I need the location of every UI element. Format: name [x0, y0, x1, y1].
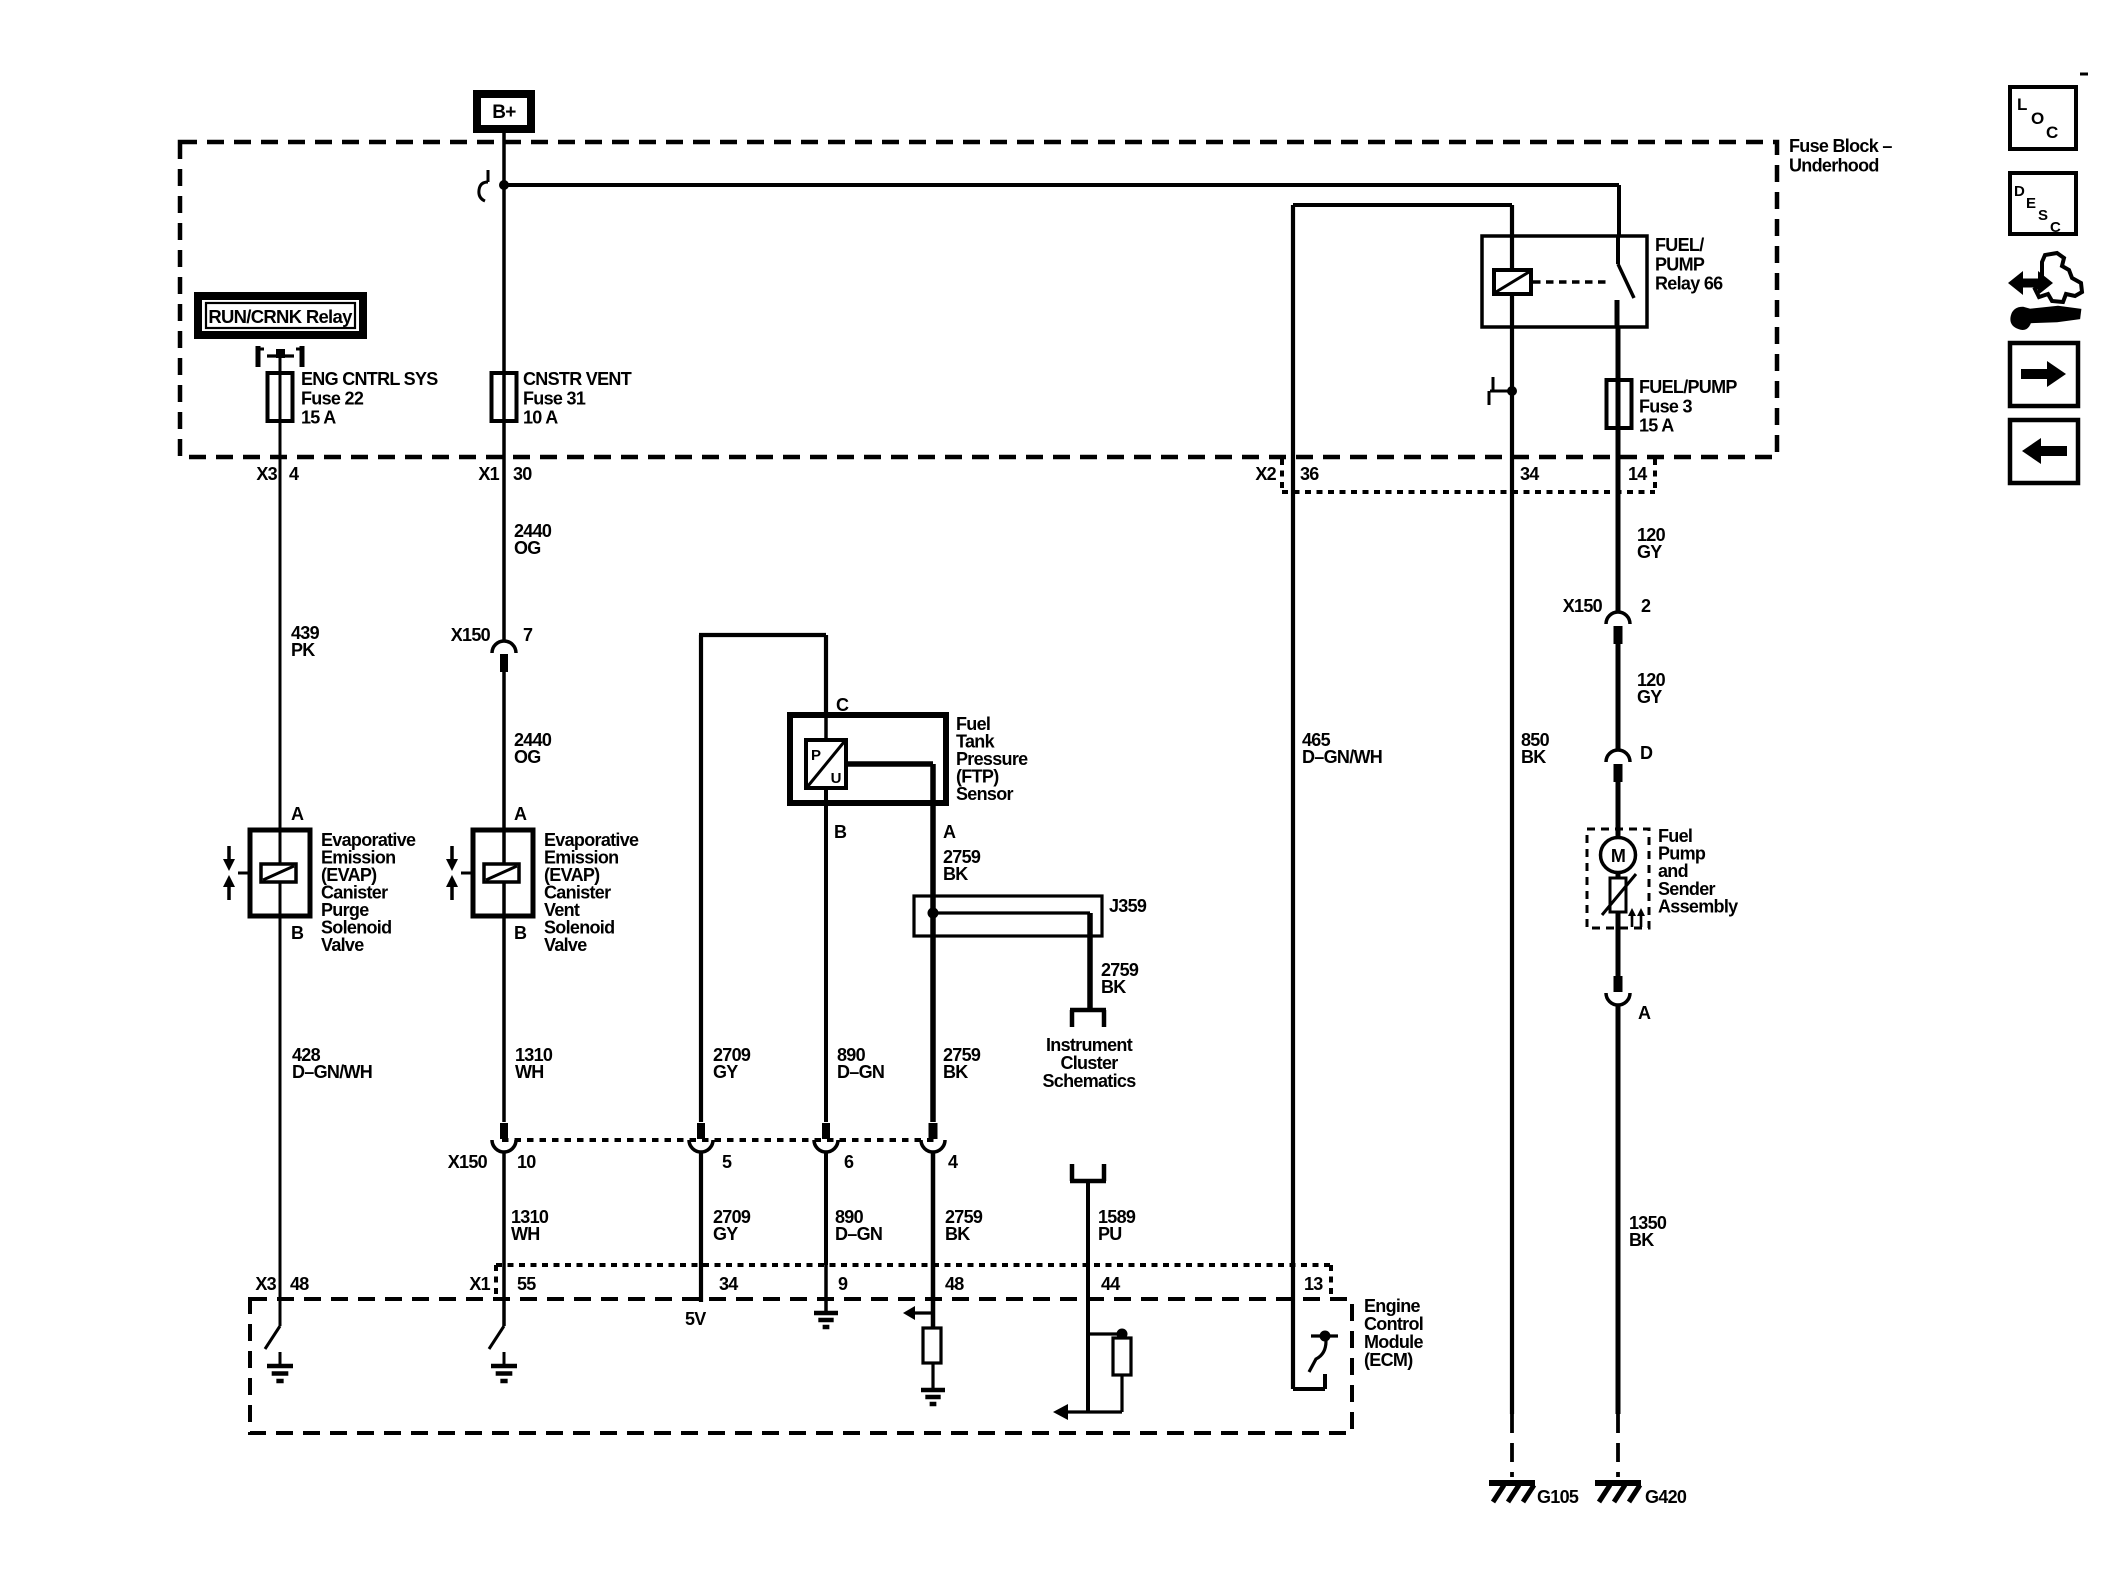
- svg-text:48: 48: [945, 1274, 964, 1294]
- svg-text:Fuse 3: Fuse 3: [1639, 396, 1693, 416]
- svg-text:Cluster: Cluster: [1060, 1053, 1118, 1073]
- svg-text:BK: BK: [945, 1224, 970, 1244]
- svg-text:X2: X2: [1255, 464, 1276, 484]
- svg-text:44: 44: [1101, 1274, 1120, 1294]
- svg-text:X1: X1: [478, 464, 499, 484]
- svg-text:A: A: [291, 804, 304, 824]
- svg-text:GY: GY: [1637, 687, 1662, 707]
- svg-text:O: O: [2031, 109, 2044, 128]
- svg-text:Fuse Block –: Fuse Block –: [1789, 136, 1892, 156]
- svg-text:15 A: 15 A: [1639, 416, 1674, 436]
- svg-text:S: S: [2038, 207, 2048, 224]
- svg-text:FUEL/: FUEL/: [1655, 235, 1704, 255]
- svg-text:13: 13: [1304, 1274, 1323, 1294]
- svg-text:G420: G420: [1645, 1487, 1687, 1507]
- svg-text:GY: GY: [713, 1224, 738, 1244]
- svg-text:A: A: [514, 804, 527, 824]
- svg-text:Sensor: Sensor: [956, 784, 1014, 804]
- svg-text:C: C: [2050, 219, 2061, 236]
- svg-text:X3: X3: [256, 464, 277, 484]
- svg-text:5V: 5V: [685, 1309, 706, 1329]
- svg-text:34: 34: [719, 1274, 738, 1294]
- svg-text:C: C: [836, 695, 849, 715]
- svg-text:6: 6: [844, 1152, 854, 1172]
- svg-text:GY: GY: [713, 1062, 738, 1082]
- svg-text:Control: Control: [1364, 1314, 1423, 1334]
- svg-text:36: 36: [1300, 464, 1319, 484]
- svg-text:D–GN/WH: D–GN/WH: [1302, 747, 1382, 767]
- svg-text:Valve: Valve: [544, 935, 587, 955]
- svg-text:X150: X150: [448, 1152, 488, 1172]
- svg-text:WH: WH: [515, 1062, 544, 1082]
- svg-text:Underhood: Underhood: [1789, 155, 1879, 175]
- svg-text:B: B: [291, 923, 304, 943]
- svg-text:BK: BK: [1101, 977, 1126, 997]
- svg-text:Valve: Valve: [321, 935, 364, 955]
- svg-text:48: 48: [290, 1274, 309, 1294]
- svg-text:Instrument: Instrument: [1046, 1035, 1133, 1055]
- svg-text:J359: J359: [1109, 896, 1147, 916]
- svg-text:Schematics: Schematics: [1042, 1071, 1136, 1091]
- svg-text:WH: WH: [511, 1224, 540, 1244]
- svg-text:(ECM): (ECM): [1364, 1350, 1413, 1370]
- svg-text:ENG CNTRL SYS: ENG CNTRL SYS: [301, 369, 438, 389]
- svg-text:M: M: [1611, 846, 1625, 866]
- svg-text:BK: BK: [1629, 1230, 1654, 1250]
- svg-text:B: B: [834, 822, 847, 842]
- svg-text:E: E: [2026, 195, 2036, 212]
- svg-text:7: 7: [523, 625, 533, 645]
- svg-text:2: 2: [1641, 596, 1651, 616]
- svg-text:4: 4: [948, 1152, 958, 1172]
- svg-text:10 A: 10 A: [523, 408, 558, 428]
- svg-text:D–GN: D–GN: [837, 1062, 884, 1082]
- svg-text:P: P: [811, 747, 821, 764]
- svg-text:BK: BK: [943, 864, 968, 884]
- svg-text:U: U: [831, 770, 842, 787]
- svg-text:RUN/CRNK Relay: RUN/CRNK Relay: [208, 306, 353, 327]
- svg-text:PK: PK: [291, 640, 315, 660]
- svg-text:A: A: [1638, 1003, 1651, 1023]
- svg-text:55: 55: [517, 1274, 536, 1294]
- svg-text:Assembly: Assembly: [1658, 896, 1738, 916]
- svg-text:OG: OG: [514, 747, 541, 767]
- svg-text:A: A: [943, 822, 956, 842]
- svg-text:D: D: [1640, 743, 1653, 763]
- svg-text:OG: OG: [514, 538, 541, 558]
- svg-text:9: 9: [838, 1274, 848, 1294]
- svg-text:X3: X3: [255, 1274, 276, 1294]
- svg-text:PU: PU: [1098, 1224, 1122, 1244]
- svg-text:BK: BK: [1521, 747, 1546, 767]
- svg-text:4: 4: [289, 464, 299, 484]
- svg-text:D–GN: D–GN: [835, 1224, 882, 1244]
- svg-text:30: 30: [513, 464, 532, 484]
- svg-text:34: 34: [1520, 464, 1539, 484]
- svg-text:Fuse 31: Fuse 31: [523, 388, 586, 408]
- svg-text:PUMP: PUMP: [1655, 254, 1705, 274]
- svg-text:FUEL/PUMP: FUEL/PUMP: [1639, 377, 1737, 397]
- svg-text:14: 14: [1628, 464, 1647, 484]
- svg-text:B: B: [514, 923, 527, 943]
- svg-text:GY: GY: [1637, 542, 1662, 562]
- svg-text:Fuse 22: Fuse 22: [301, 388, 364, 408]
- svg-text:C: C: [2046, 123, 2058, 142]
- svg-text:X1: X1: [469, 1274, 490, 1294]
- svg-text:X150: X150: [451, 625, 491, 645]
- svg-text:5: 5: [722, 1152, 732, 1172]
- svg-text:X150: X150: [1563, 596, 1603, 616]
- svg-text:10: 10: [517, 1152, 536, 1172]
- svg-text:Relay 66: Relay 66: [1655, 274, 1723, 294]
- svg-text:15 A: 15 A: [301, 408, 336, 428]
- svg-text:BK: BK: [943, 1062, 968, 1082]
- svg-text:CNSTR VENT: CNSTR VENT: [523, 369, 632, 389]
- svg-text:Module: Module: [1364, 1332, 1423, 1352]
- svg-text:Engine: Engine: [1364, 1296, 1420, 1316]
- svg-text:G105: G105: [1537, 1487, 1579, 1507]
- svg-text:D–GN/WH: D–GN/WH: [292, 1062, 372, 1082]
- svg-text:D: D: [2014, 183, 2025, 200]
- svg-text:B+: B+: [492, 102, 516, 123]
- svg-text:L: L: [2017, 95, 2027, 114]
